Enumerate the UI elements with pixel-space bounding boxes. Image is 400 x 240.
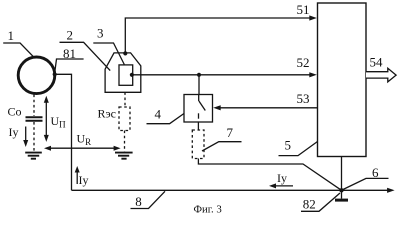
stub switch 4 to element 7	[197, 122, 199, 130]
Iy current arrow (left, downward)	[9, 125, 29, 147]
svg-text:Iy: Iy	[79, 173, 89, 187]
wire 52: from element 3 right into block 5	[133, 72, 317, 77]
resistor Res (dashed body)	[119, 107, 130, 131]
wire junction to switch 4	[198, 75, 200, 95]
Iy annotation on bottom bus (leftward)	[269, 171, 293, 189]
switch contacts inside 4	[199, 95, 206, 119]
svg-text:52: 52	[297, 55, 310, 70]
ground under Res	[115, 153, 133, 159]
Iy annotation on left riser (upward)	[75, 166, 89, 187]
svg-text:Iy: Iy	[277, 171, 287, 185]
element 7 (dashed body)	[192, 130, 204, 159]
svg-text:Co: Co	[8, 105, 22, 119]
bottom bus wire 8 with right arrow	[72, 188, 395, 193]
Ur voltage double arrow between grounds	[44, 132, 121, 151]
ground under capacitor	[25, 153, 42, 159]
node 81 dot	[53, 72, 57, 76]
node on right edge of 3	[130, 73, 134, 77]
converter body 2 (chamfered box)	[105, 53, 141, 92]
label 1	[3, 28, 33, 56]
output 54 hollow arrow	[366, 68, 396, 82]
svg-text:2: 2	[67, 27, 74, 42]
capacitor Co plates	[26, 116, 43, 118]
label 3	[93, 26, 124, 65]
svg-text:8: 8	[135, 194, 142, 209]
inner element 3	[119, 65, 133, 85]
svg-text:Rэс: Rэс	[98, 107, 116, 121]
svg-text:1: 1	[8, 28, 15, 43]
output node 82	[339, 188, 343, 192]
svg-text:Iy: Iy	[9, 125, 19, 139]
sensor circle 1	[18, 57, 55, 94]
dashed wire Res to ground	[124, 131, 126, 152]
Un voltage double arrow	[44, 96, 66, 142]
svg-text:82: 82	[303, 196, 316, 211]
svg-text:5: 5	[285, 138, 292, 153]
label 7	[202, 125, 242, 151]
wire 53: from block 5 into switch 4	[213, 105, 317, 110]
wire from node 81 right then down to bottom bus	[55, 74, 72, 190]
label 8	[131, 191, 166, 209]
dashed wire circle to capacitor	[33, 95, 35, 117]
switch 4 box	[184, 95, 213, 123]
label 82	[301, 193, 340, 211]
svg-text:54: 54	[370, 54, 384, 69]
svg-text:6: 6	[372, 165, 379, 180]
svg-text:51: 51	[297, 2, 310, 17]
svg-text:3: 3	[97, 26, 104, 41]
ground terminal 82	[335, 190, 348, 201]
svg-text:4: 4	[155, 107, 162, 122]
wire 51: from top of 2 up and right into block 5	[125, 15, 316, 53]
label 5	[279, 138, 318, 156]
block 5	[318, 3, 367, 157]
dashed wire 2 to Res	[124, 92, 126, 107]
node on top edge of 2	[123, 51, 127, 55]
dashed wire capacitor to ground	[33, 122, 35, 151]
label 4	[147, 107, 185, 124]
label 2	[60, 27, 111, 70]
junction on wire 52 above switch 4	[197, 73, 201, 77]
label 81	[55, 46, 84, 72]
svg-text:53: 53	[297, 91, 310, 106]
wire from 7 to output node	[198, 159, 341, 191]
wire block 5 down to node 82	[341, 157, 343, 191]
svg-text:7: 7	[227, 125, 234, 140]
label 6	[343, 165, 389, 190]
svg-text:Фиг. 3: Фиг. 3	[194, 203, 222, 215]
